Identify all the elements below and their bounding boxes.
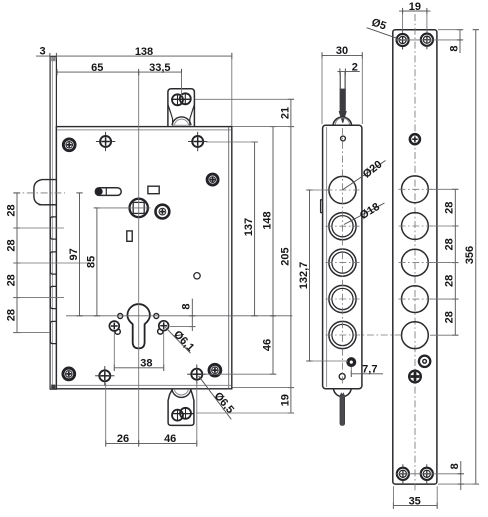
- svg-text:46: 46: [164, 433, 176, 445]
- deadbolt top pin rod: [340, 89, 346, 112]
- strike circle 4: [402, 286, 429, 313]
- side pin tab 2: [50, 252, 56, 274]
- svg-text:138: 138: [135, 46, 153, 58]
- circle 5 crosshair to strike plate: [326, 334, 401, 336]
- svg-text:21: 21: [279, 107, 291, 119]
- deadbolt top pin arrowhead: [339, 112, 346, 123]
- svg-text:46: 46: [261, 339, 273, 351]
- leader diameter 18: [344, 203, 385, 225]
- screw bottom cross left: [99, 370, 110, 381]
- fixing screw right of keyhole: [158, 329, 163, 334]
- lock case outline: [56, 127, 231, 389]
- extension screw row: [206, 141, 257, 143]
- dimension 97: [79, 193, 81, 316]
- deadbolt circle 3: [329, 249, 356, 276]
- strike circle crosshairs: [399, 188, 432, 190]
- side pin tab 1: [50, 217, 56, 239]
- deadbolt circle 4: [329, 285, 356, 312]
- svg-text:3: 3: [40, 46, 46, 58]
- strike circle 5: [402, 322, 429, 349]
- line through top screws: [396, 39, 462, 41]
- extension latch top: [195, 98, 293, 100]
- leader diameter 20: [343, 161, 386, 190]
- svg-text:19: 19: [279, 394, 291, 406]
- knob dash-dot centerline: [13, 192, 65, 194]
- screw top cross right: [192, 136, 203, 147]
- deadbolt bottom pin rod: [340, 393, 345, 425]
- deadbolt body inner edge: [326, 127, 328, 387]
- deadbolt vertical centerline: [341, 128, 343, 385]
- dimension 35: [393, 505, 437, 507]
- top latch arch: [172, 117, 191, 125]
- svg-text:65: 65: [91, 62, 103, 74]
- deadbolt top arch guard: [333, 117, 352, 125]
- side pin tab 3: [50, 286, 56, 308]
- svg-text:28: 28: [5, 309, 17, 321]
- dimension 8 strike top: [459, 30, 461, 40]
- small rectangular opening: [148, 186, 159, 194]
- top latch bolt (peanut section): [171, 98, 191, 100]
- extension lines left 28 chain: [13, 227, 64, 229]
- bottom latch guard: [168, 389, 194, 425]
- strike screw bottom right: [421, 468, 433, 480]
- svg-text:26: 26: [117, 433, 129, 445]
- svg-text:97: 97: [68, 248, 80, 260]
- deadbolt circle 5: [329, 321, 356, 348]
- lock case inner edge right: [228, 127, 230, 388]
- strike screw bottom left: [397, 468, 409, 480]
- svg-text:33,5: 33,5: [149, 62, 170, 74]
- spindle follower hole: [130, 199, 148, 217]
- keyhole horizontal centerline: [66, 315, 292, 317]
- svg-text:28: 28: [5, 274, 17, 286]
- keyhole side hole right: [154, 314, 159, 319]
- svg-text:28: 28: [444, 202, 456, 214]
- strike plate centerline: [414, 14, 416, 491]
- strike screw top right: [421, 34, 433, 46]
- dimension 38: [114, 367, 163, 369]
- svg-text:85: 85: [85, 256, 97, 268]
- svg-text:356: 356: [464, 246, 476, 264]
- svg-text:8: 8: [449, 463, 461, 469]
- extension line screw right: [170, 326, 195, 328]
- dimension 8 strike bottom: [460, 461, 462, 490]
- strike torx screw upper: [410, 134, 420, 144]
- side pin tab 4: [50, 321, 56, 343]
- extension spindle center: [97, 207, 151, 209]
- line through bottom screws: [396, 473, 462, 475]
- strike screw top left: [397, 34, 409, 46]
- extension lines 28 chain strike: [430, 188, 458, 190]
- dimension 85: [96, 208, 98, 316]
- dimension 21 205 19 chain: [290, 99, 292, 413]
- svg-text:148: 148: [261, 211, 273, 229]
- side knob on faceplate: [34, 180, 56, 205]
- dimension 356: [475, 30, 477, 484]
- svg-text:28: 28: [444, 311, 456, 323]
- bottom latch arch: [172, 389, 191, 397]
- dimension 8 keyhole: [191, 299, 193, 331]
- dimension 19 strike top: [403, 10, 427, 12]
- svg-text:132,7: 132,7: [298, 262, 310, 290]
- deadbolt circle 1 diameter 20: [329, 176, 356, 203]
- strike circle 1: [402, 176, 429, 203]
- deadbolt unit body: [323, 125, 362, 389]
- svg-text:35: 35: [409, 495, 421, 507]
- dimension 132,7: [309, 190, 311, 361]
- deadbolt bottom arch guard: [333, 389, 351, 397]
- svg-text:28: 28: [5, 204, 17, 216]
- lock case inner edge top: [57, 129, 231, 131]
- fixing screw left of keyhole: [115, 329, 120, 334]
- svg-text:8: 8: [181, 303, 193, 309]
- strike plate outline: [393, 30, 437, 484]
- svg-text:205: 205: [279, 247, 291, 265]
- circle crosshairs middle view: [326, 189, 360, 191]
- dimension 3 and 138 top: [56, 55, 231, 57]
- deadbolt circle 2 diameter 18: [329, 213, 356, 240]
- strike circle 2: [402, 213, 429, 240]
- top latch guard: [168, 89, 195, 127]
- deadbolt side pin left: [321, 200, 323, 213]
- deadbolt small hole bottom: [339, 374, 345, 380]
- strike circle 3: [402, 249, 429, 276]
- svg-text:7,7: 7,7: [362, 363, 377, 375]
- screw beside spindle: [156, 205, 170, 219]
- svg-text:28: 28: [444, 238, 456, 250]
- screw top cross left: [100, 136, 111, 147]
- strike phillips screw lower: [409, 371, 421, 383]
- leader diameter 5: [367, 28, 401, 40]
- extension right for 138: [231, 53, 233, 126]
- handle slot: [95, 188, 121, 196]
- extension body bottom right: [232, 387, 293, 389]
- deadbolt top pin thin part: [339, 72, 341, 89]
- leader diameter 6,5: [199, 376, 232, 420]
- screw right torx: [207, 174, 218, 185]
- deadbolt cap hole: [341, 136, 346, 141]
- tiny rectangular hole: [127, 231, 132, 241]
- svg-text:30: 30: [336, 45, 348, 57]
- latch vertical centerline: [181, 72, 183, 96]
- bottom latch bolt (peanut section): [172, 413, 195, 415]
- small circle hole right: [194, 273, 200, 279]
- dimension 28 chain strike: [454, 189, 456, 335]
- extension latch center: [181, 72, 183, 88]
- corner screw bottom-right torx: [209, 364, 221, 376]
- leader diameter 6,1: [165, 327, 190, 353]
- dimension 30: [322, 54, 362, 56]
- extension body top right: [232, 126, 293, 128]
- left 28 chain dimension: [16, 193, 18, 333]
- corner screw bottom-left torx: [63, 368, 75, 380]
- svg-text:38: 38: [140, 357, 152, 369]
- svg-text:19: 19: [409, 1, 421, 13]
- keyhole side hole left: [118, 314, 123, 319]
- extension bottom screw row: [205, 373, 275, 375]
- euro cylinder keyhole: [127, 304, 149, 348]
- svg-text:28: 28: [5, 239, 17, 251]
- dimension 2: [337, 71, 359, 73]
- dimension 26 and 46 bottom: [106, 442, 197, 444]
- svg-text:28: 28: [444, 275, 456, 287]
- deadbolt small dark hole: [347, 358, 356, 367]
- strike adjuster ring: [419, 356, 430, 367]
- svg-text:2: 2: [352, 61, 358, 73]
- screw bottom cross right: [191, 369, 202, 380]
- main lock body faceplate: [50, 57, 56, 390]
- corner screw top-left torx: [63, 139, 75, 151]
- lock case inner edge bottom: [57, 384, 231, 386]
- svg-text:137: 137: [243, 218, 255, 236]
- dimension 7,7: [351, 373, 383, 375]
- dimension 137: [254, 142, 256, 316]
- svg-text:8: 8: [448, 45, 460, 51]
- dimension 148 and 46 chain: [272, 127, 274, 375]
- main vertical centerline: [138, 72, 140, 443]
- dimension 65 and 33,5: [57, 71, 182, 73]
- extension bottom latch slot: [196, 412, 293, 414]
